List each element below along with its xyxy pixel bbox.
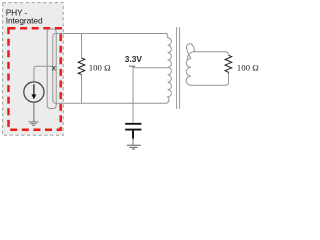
- red dashed inner box: [9, 28, 61, 130]
- wire middle vertical (PHY pin): [53, 37, 56, 104]
- resistor R1 100 ohm zigzag: [78, 58, 85, 75]
- wire 3.3V center tap to transformer: [133, 66, 168, 68]
- wire 3.3V down to capacitor (crosses bottom rail): [132, 68, 134, 123]
- transformer T1 primary winding: [166, 34, 171, 104]
- resistor R1 lead bottom: [81, 75, 83, 104]
- capacitor C1 plates: [125, 123, 141, 125]
- transformer T1 secondary winding: top loop dome: [187, 44, 195, 52]
- svg-text:100 Ω: 100 Ω: [89, 63, 111, 73]
- PHY box (gray dashed, light fill): [3, 3, 64, 136]
- resistor R2 zigzag: [225, 55, 232, 73]
- wire source to ground: [33, 102, 35, 122]
- secondary loop left side down to cusp: [187, 49, 191, 58]
- current source I1: [24, 82, 44, 102]
- svg-text:3.3V: 3.3V: [125, 54, 143, 64]
- wire ring loop inside PHY: [47, 29, 56, 109]
- wire secondary top rail: [187, 52, 228, 61]
- ground (current source): [28, 122, 38, 126]
- svg-text:Integrated: Integrated: [6, 15, 43, 25]
- wire bottom rail from PHY to transformer primary bottom: [56, 102, 167, 104]
- transformer T1 secondary winding bumps: [186, 59, 196, 86]
- resistor R1 lead top: [81, 34, 83, 58]
- transformer core: [176, 27, 178, 109]
- wire from current source to node x: [34, 66, 53, 82]
- capacitor lower stub: [132, 131, 134, 139]
- svg-text:x: x: [52, 62, 57, 72]
- wire top rail from PHY to transformer primary top: [53, 34, 168, 37]
- resistor R2 lead bottom + bottom rail: [196, 74, 228, 86]
- 3.3V power bar: [129, 65, 135, 67]
- ground (capacitor): [127, 145, 141, 149]
- svg-text:100 Ω: 100 Ω: [237, 63, 259, 73]
